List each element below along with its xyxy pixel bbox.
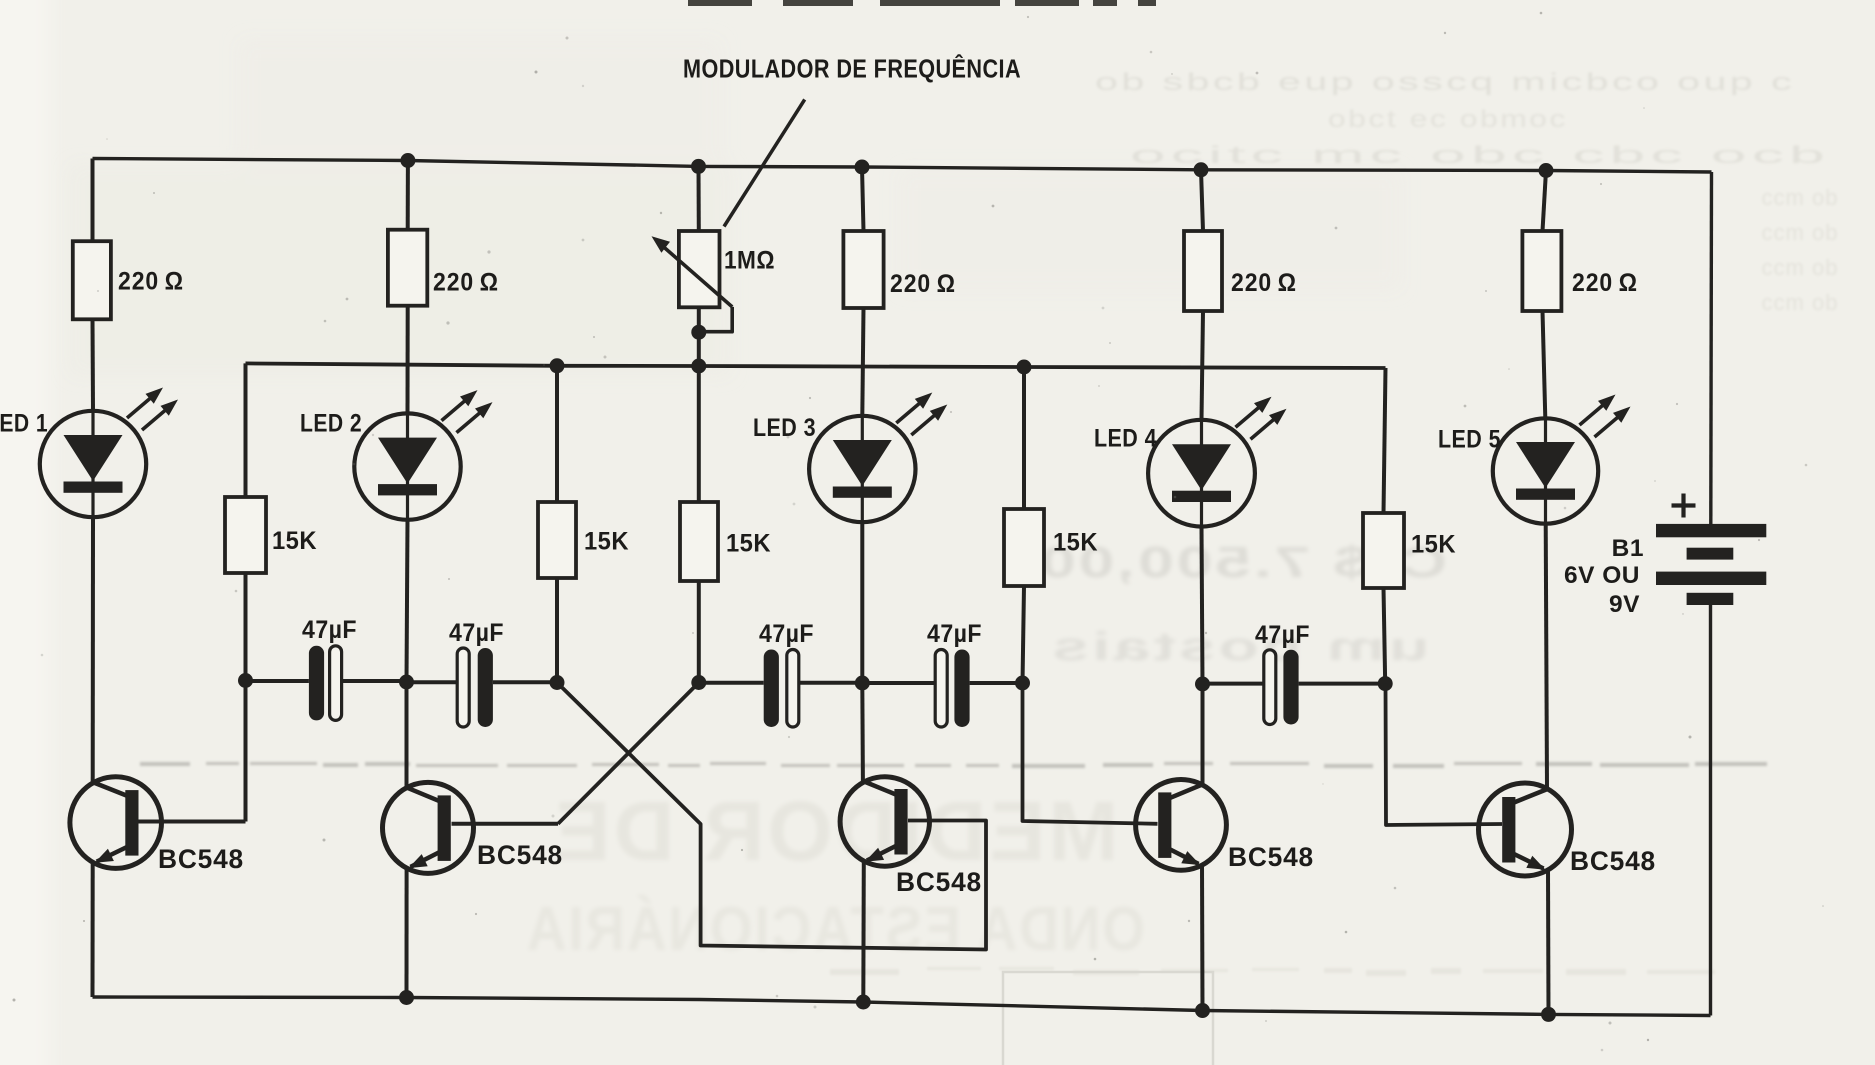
svg-text:obct ec obmoc: obct ec obmoc	[1328, 106, 1568, 133]
transistor Q5 (BC548)	[1479, 783, 1572, 876]
label 15K R6	[272, 527, 317, 555]
wire V+ to R5	[1543, 171, 1547, 232]
potentiometer P1 arrow	[652, 236, 733, 307]
svg-text:MEDIDOR DE: MEDIDOR DE	[552, 784, 1119, 878]
node Q5 emitter on bottom rail	[1541, 1007, 1556, 1022]
resistor R7 15K	[538, 502, 576, 578]
node Q2 emitter on bottom rail	[399, 990, 414, 1005]
pointer line from title to potentiometer	[724, 100, 805, 227]
capacitor C4 47uF with wires	[862, 650, 1022, 728]
faint bleed-through text top right	[1095, 69, 1838, 315]
label 15K R9	[1053, 529, 1098, 557]
svg-text:LED 5: LED 5	[1438, 426, 1501, 454]
capacitor C1 47uF with wires	[246, 646, 407, 721]
wire R9 to node F	[1023, 586, 1025, 683]
wire right battery feed	[1709, 172, 1713, 524]
LED 4 (LED4)	[1148, 397, 1286, 527]
wire node H to Q5 base	[1386, 684, 1503, 825]
label 47µF for C2	[449, 619, 504, 647]
wire diagonal node C to Q3 base loop	[557, 683, 986, 950]
wire LED2 to node B	[407, 520, 408, 682]
svg-text:220 Ω: 220 Ω	[1572, 269, 1638, 297]
wire V+ to R2	[406, 161, 410, 230]
node top rail col4	[1194, 162, 1209, 177]
svg-text:LED 1: LED 1	[0, 410, 48, 438]
wire node A down to Q1 base corner	[244, 681, 248, 822]
label 220 ohm R3	[890, 270, 956, 298]
node top rail col3	[855, 160, 870, 175]
resistor R4 220	[1184, 231, 1222, 311]
wire R10 to node H	[1384, 588, 1386, 684]
svg-text:47µF: 47µF	[302, 616, 357, 644]
svg-text:ocitc mc obc cbc ocb: ocitc mc obc cbc ocb	[1130, 142, 1830, 169]
wire R7 to node C	[555, 578, 559, 683]
LED 2 (LED2)	[354, 390, 492, 520]
svg-text:15K: 15K	[726, 530, 771, 558]
node pot wiper junction	[691, 325, 706, 340]
potentiometer wiper link	[699, 307, 732, 332]
svg-text:ccm ob: ccm ob	[1762, 185, 1839, 210]
label 15K R10	[1411, 531, 1456, 559]
label LED 5	[1438, 426, 1501, 454]
label LED 3	[753, 414, 816, 442]
svg-text:ONDA ESTACIONÁRIA: ONDA ESTACIONÁRIA	[525, 895, 1145, 964]
wire pot bottom to bias rail	[697, 307, 701, 366]
node D junction	[691, 675, 706, 690]
label BC548 for Q2	[477, 840, 563, 870]
node Q3 emitter on bottom rail	[856, 995, 871, 1010]
svg-text:220 Ω: 220 Ω	[1231, 269, 1297, 297]
svg-text:LED 4: LED 4	[1094, 425, 1157, 453]
wire top supply rail	[93, 159, 1712, 173]
svg-text:BC548: BC548	[158, 844, 244, 874]
wire Q4 emitter to bottom rail	[1200, 864, 1205, 1011]
node top rail pot	[691, 159, 706, 174]
wire bias rail to R7	[555, 366, 559, 502]
wire bottom rail	[93, 997, 1711, 1016]
svg-text:BC548: BC548	[1228, 842, 1314, 872]
LED 5 (LED5)	[1493, 395, 1631, 524]
label LED 1	[0, 410, 48, 438]
label BC548 for Q1	[158, 844, 244, 874]
svg-text:1MΩ: 1MΩ	[724, 247, 775, 275]
wire node B to Q2 collector	[405, 682, 409, 789]
label 220 ohm R2	[433, 269, 499, 297]
node top rail col2	[400, 153, 415, 168]
svg-text:ob sbcb eup osscq micbco oup c: ob sbcb eup osscq micbco oup c	[1095, 69, 1795, 96]
node C junction	[550, 675, 565, 690]
faint smudge streak	[140, 762, 1767, 976]
svg-text:LED 3: LED 3	[753, 414, 816, 442]
potentiometer P1 1M body	[679, 231, 720, 307]
svg-text:ccm ob: ccm ob	[1762, 220, 1839, 245]
label B1	[1612, 535, 1644, 562]
label 47µF for C1	[302, 616, 357, 644]
node bias rail 15K2	[550, 358, 565, 373]
label MODULADOR DE FREQUENCIA	[683, 54, 1021, 84]
wire R6 to node A	[244, 573, 248, 681]
wire R5 to LED5	[1543, 311, 1546, 418]
node G junction	[1195, 677, 1210, 692]
wire node F to Q4 base	[1023, 683, 1158, 824]
wire LED4 to node G	[1202, 527, 1203, 684]
label LED 2	[300, 410, 362, 438]
node B junction	[399, 675, 414, 690]
wire bias rail to R10	[1384, 368, 1386, 513]
transistor Q2 (BC548)	[383, 782, 474, 873]
wire node G to Q4 collector	[1201, 684, 1205, 785]
wire LED3 to node E	[860, 522, 864, 683]
svg-text:um postais: um postais	[1049, 625, 1429, 669]
plus sign of battery	[1672, 494, 1696, 518]
wire V+ to potentiometer	[697, 166, 701, 231]
wire Q1 base from R6	[138, 820, 246, 824]
label 6V OU	[1564, 562, 1640, 589]
label 15K R8	[726, 530, 771, 558]
wire base bias rail	[246, 363, 1386, 368]
label LED 4	[1094, 425, 1157, 453]
wire V+ to R1	[91, 159, 95, 242]
capacitor C3 47uF with wires	[699, 650, 863, 728]
label 220 ohm R5	[1572, 269, 1638, 297]
svg-text:B1: B1	[1612, 535, 1644, 562]
wire diagonal node D to Q2 base	[558, 683, 699, 824]
svg-text:MODULADOR DE FREQUÊNCIA: MODULADOR DE FREQUÊNCIA	[683, 54, 1021, 84]
wire R2 to LED2	[406, 306, 410, 414]
resistor R10 15K	[1363, 513, 1404, 588]
LED 3 (LED3)	[809, 393, 947, 523]
wire Q1 emitter to bottom rail	[91, 862, 95, 997]
transistor Q1 (BC548)	[70, 777, 162, 869]
wire LED5 to Q5 collector	[1546, 524, 1547, 789]
wire Q5 emitter to bottom rail	[1546, 869, 1551, 1014]
node bias rail pot column	[691, 359, 706, 374]
node A junction	[238, 673, 253, 688]
wire R3 to LED3	[862, 308, 863, 416]
wire Q2 base horizontal	[452, 822, 559, 826]
battery B1	[1656, 524, 1766, 605]
resistor R9 15K	[1004, 509, 1044, 586]
svg-text:47µF: 47µF	[759, 620, 814, 648]
node H junction	[1378, 676, 1393, 691]
resistor R8 15K	[680, 502, 718, 581]
resistor R2 220	[388, 230, 427, 306]
label 47µF for C5	[1255, 621, 1310, 649]
svg-text:BC548: BC548	[896, 867, 982, 897]
wire bias rail to R9	[1022, 367, 1026, 509]
svg-text:BC548: BC548	[477, 840, 563, 870]
svg-text:LED 2: LED 2	[300, 410, 362, 438]
svg-text:220 Ω: 220 Ω	[433, 269, 499, 297]
svg-text:47µF: 47µF	[927, 620, 982, 648]
svg-text:9V: 9V	[1609, 591, 1640, 618]
svg-text:6V OU: 6V OU	[1564, 562, 1640, 589]
node bias rail 15K4	[1017, 360, 1032, 375]
label 220 ohm R4	[1231, 269, 1297, 297]
resistor R3 220	[843, 231, 883, 308]
wire R1 to LED1	[91, 319, 96, 411]
node Q4 emitter on bottom rail	[1195, 1003, 1210, 1018]
wire LED1 to Q1 collector	[91, 517, 95, 784]
svg-text:47µF: 47µF	[1255, 621, 1310, 649]
wire R4 to LED4	[1202, 311, 1204, 420]
label BC548 for Q4	[1228, 842, 1314, 872]
svg-text:15K: 15K	[1411, 531, 1456, 559]
capacitor C5 47uF with wires	[1203, 650, 1386, 725]
resistor R1 220	[73, 241, 111, 319]
faint bleed box outline	[1003, 972, 1213, 1065]
label BC548 for Q5	[1570, 846, 1656, 876]
node F junction	[1015, 676, 1030, 691]
label 9V	[1609, 591, 1640, 618]
wire bias rail to R8	[697, 366, 701, 502]
wire R8 to node D	[697, 581, 701, 683]
faint bleed-through text middle right	[1037, 538, 1447, 669]
svg-text:ccm ob: ccm ob	[1762, 255, 1839, 280]
svg-text:220 Ω: 220 Ω	[890, 270, 956, 298]
node top rail col5	[1539, 163, 1554, 178]
label 15K R7	[584, 528, 629, 556]
LED 1 (LED1)	[40, 388, 178, 518]
label 47µF for C4	[927, 620, 982, 648]
wire V+ to R4	[1201, 170, 1203, 231]
transistor Q4 (BC548)	[1136, 780, 1227, 871]
label 220 ohm R1	[118, 268, 184, 296]
label 47µF for C3	[759, 620, 814, 648]
svg-text:ccm ob: ccm ob	[1762, 290, 1839, 315]
wire V+ to R3	[862, 167, 864, 231]
label 1M ohm	[724, 247, 775, 275]
svg-text:BC548: BC548	[1570, 846, 1656, 876]
capacitor C2 47uF with wires	[407, 648, 558, 727]
wire Q3 emitter to bottom rail	[861, 861, 866, 1003]
wire Q2 emitter to bottom rail	[405, 867, 409, 998]
svg-text:15K: 15K	[272, 527, 317, 555]
wire node E to Q3 collector	[860, 683, 865, 782]
svg-text:15K: 15K	[1053, 529, 1098, 557]
wire battery minus to bottom rail	[1709, 605, 1712, 1016]
svg-text:220 Ω: 220 Ω	[118, 268, 184, 296]
svg-text:15K: 15K	[584, 528, 629, 556]
label BC548 for Q3	[896, 867, 982, 897]
resistor R6 15K	[225, 497, 266, 573]
cropped text line at top edge	[688, 0, 1156, 6]
resistor R5 220	[1522, 231, 1561, 311]
svg-text:47µF: 47µF	[449, 619, 504, 647]
wire bias rail to R6	[244, 363, 248, 497]
transistor Q3 (BC548)	[840, 777, 929, 866]
node E junction	[855, 676, 870, 691]
faint bleed-through headline bottom center	[525, 784, 1145, 964]
